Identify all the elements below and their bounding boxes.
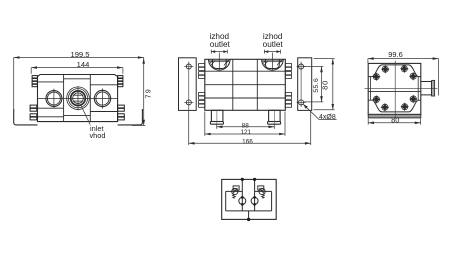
- bolts right edge lower stacks: [118, 105, 125, 108]
- dim 166: [189, 142, 311, 144]
- body mid line through ports: [38, 98, 118, 100]
- junction dot top right: [253, 178, 256, 181]
- socket screws side view: [372, 64, 418, 111]
- wire riser right: [254, 179, 256, 211]
- leader inlet: [81, 105, 91, 125]
- relief valve left body: [233, 186, 239, 190]
- dimension lines top view: [189, 50, 337, 146]
- dim texts front view: [70, 50, 152, 140]
- svg-text:outlet: outlet: [263, 40, 284, 49]
- left port center mark: [53, 89, 55, 109]
- vertical centerline: [394, 61, 396, 118]
- arrows 99.6: [368, 57, 374, 60]
- port dot motor right bottom: [253, 203, 256, 206]
- arrow 144 left: [31, 66, 37, 69]
- relief valve right spring: [262, 195, 265, 198]
- dim 199.5 line: [14, 57, 144, 59]
- wire inner loop left side: [225, 191, 227, 211]
- arrows 88: [217, 126, 223, 129]
- arrow 199.5 right: [138, 56, 144, 59]
- dimensions side view: [368, 59, 439, 125]
- port dot motor left bottom: [241, 203, 244, 206]
- arrows outlet dims: [211, 50, 215, 53]
- wire riser left: [241, 179, 243, 211]
- inlet port bold thread ring: [71, 91, 86, 106]
- wire inner loop bottom: [226, 210, 272, 212]
- port dot motor right top: [253, 196, 256, 199]
- port dot motor left top: [241, 196, 244, 199]
- section line left: [232, 59, 234, 110]
- dim 79 bottom extension: [132, 125, 145, 127]
- bolts top view left edge: [199, 64, 292, 108]
- split line 1: [205, 70, 285, 72]
- wire inner loop right side: [271, 191, 273, 211]
- horizontal split line middle section lower: [64, 115, 91, 117]
- dim 79 line / right extension: [143, 58, 145, 126]
- hole top-right 8mm: [299, 64, 304, 69]
- port neck: [421, 82, 432, 95]
- bolts right edge upper stack: [118, 76, 123, 78]
- arrow 79 bottom: [142, 120, 145, 126]
- base strip: [368, 114, 421, 118]
- svg-text:outlet: outlet: [210, 40, 231, 49]
- section line right: [256, 59, 258, 110]
- dim 88: [217, 126, 275, 128]
- split line side view: [368, 90, 421, 92]
- svg-text:121: 121: [240, 129, 251, 136]
- wire valve line right: [255, 190, 272, 192]
- junction dot bottom inlet: [247, 218, 250, 221]
- arrows 80 vertical: [332, 59, 335, 65]
- dimensions front view: [14, 58, 146, 126]
- wire bottom drop: [248, 211, 250, 220]
- hole bottom-right 8mm: [299, 100, 304, 105]
- arrows 166: [189, 142, 195, 145]
- bolts left edge upper stack: [30, 76, 124, 120]
- dim 121: [205, 133, 285, 135]
- dim 199.5 left extension: [13, 58, 15, 112]
- arrow 4x08 leader: [303, 104, 307, 109]
- outlet dim right: [263, 50, 265, 54]
- dim 55.6 vertical: [321, 67, 323, 102]
- section joint line right: [89, 74, 91, 121]
- horizontal split line left section upper: [38, 81, 64, 83]
- texts top view: [210, 32, 336, 145]
- split line 2: [205, 84, 285, 86]
- split line 3: [205, 97, 285, 99]
- right foot bracket: [118, 109, 143, 125]
- horizontal split line left section lower: [38, 107, 64, 109]
- svg-text:144: 144: [77, 60, 90, 69]
- enclosure box: [222, 179, 277, 219]
- arrows 55.6: [320, 67, 323, 73]
- left foot bracket: [14, 109, 38, 125]
- port collar: [432, 80, 435, 96]
- body outline side view: [368, 63, 421, 114]
- wire valve line left: [226, 190, 243, 192]
- dim 144 left extension: [30, 68, 32, 74]
- dim 99.6 line: [368, 58, 439, 60]
- arrow 199.5 left: [14, 56, 20, 59]
- metering motor right: [251, 197, 258, 204]
- left port circle: [46, 91, 62, 107]
- horizontal split line right section upper: [90, 84, 117, 86]
- dim 80 bottom: [368, 122, 420, 124]
- horizontal centerline: [365, 87, 438, 89]
- junction dot top left: [241, 178, 244, 181]
- outlet port left: [209, 53, 231, 71]
- housing profile bottom: [368, 100, 421, 112]
- body outline top view: [205, 59, 285, 110]
- horizontal split line left section lower2: [38, 116, 64, 118]
- svg-text:79: 79: [143, 88, 152, 98]
- metering motor left: [239, 197, 246, 204]
- foot right top view: [269, 110, 281, 121]
- inlet port outer rings: [67, 87, 90, 110]
- inlet port center mark: [77, 86, 79, 110]
- outlet port right: [262, 53, 284, 71]
- dim 144 right extension: [122, 68, 124, 74]
- section joint line left: [63, 74, 65, 121]
- relief valve left spring: [233, 195, 236, 198]
- svg-text:4xØ8: 4xØ8: [319, 114, 336, 121]
- body outline front view: [38, 75, 118, 122]
- inlet port chords: [73, 94, 83, 96]
- svg-text:99.6: 99.6: [388, 50, 402, 59]
- hole top-left 8mm: [186, 64, 191, 69]
- foot left top view: [210, 110, 280, 124]
- svg-text:80: 80: [391, 116, 399, 125]
- svg-text:55.6: 55.6: [313, 78, 320, 93]
- dim 80 vertical: [332, 59, 334, 110]
- housing profile side lines: [370, 77, 372, 101]
- arrows 80 bottom: [368, 122, 374, 125]
- outlet dim left: [210, 50, 212, 54]
- arrow 79 top: [142, 58, 145, 64]
- plate holes: [184, 62, 306, 111]
- housing profile top: [368, 65, 421, 77]
- leader 4x08: [303, 104, 336, 119]
- bolts left edge lower stacks: [30, 105, 37, 108]
- arrow 144 right: [117, 66, 123, 69]
- relief valve right body: [258, 186, 264, 190]
- right port circle: [94, 90, 110, 106]
- outlet right center mark: [271, 53, 273, 71]
- svg-text:vhod: vhod: [89, 131, 105, 140]
- svg-text:166: 166: [242, 138, 253, 145]
- bolts top view right edge: [285, 64, 291, 67]
- left end plate: [179, 58, 197, 111]
- right port center mark: [102, 88, 104, 108]
- hole bottom-left 8mm: [186, 100, 191, 105]
- right end plate: [298, 58, 312, 111]
- horizontal split line right section lower: [90, 111, 117, 113]
- dim 144 line: [31, 67, 123, 69]
- arrows 121: [205, 133, 211, 136]
- horizontal split line middle section upper: [64, 78, 91, 80]
- outlet left center mark: [218, 53, 220, 71]
- svg-text:199.5: 199.5: [70, 50, 89, 59]
- svg-text:80: 80: [321, 80, 330, 90]
